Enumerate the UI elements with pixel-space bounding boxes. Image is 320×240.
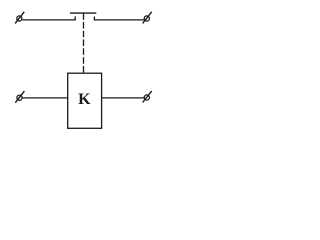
wire top-left to contact <box>22 19 75 21</box>
slash top-right <box>143 12 152 24</box>
slash bottom-right <box>143 91 152 103</box>
svg-text:K: K <box>78 91 91 108</box>
terminal circle top-left <box>17 16 22 21</box>
terminal circle bottom-right <box>144 95 149 100</box>
slash bottom-left <box>15 91 24 103</box>
wire bottom-left to coil <box>23 97 68 99</box>
slash top-left <box>15 12 24 24</box>
contact bridge bar <box>70 12 96 14</box>
fixed contact upturn left <box>74 16 76 20</box>
relay schematic: NO bridging contact linked to coil K <box>0 0 168 134</box>
wire coil to bottom-right <box>102 97 144 99</box>
coil box K <box>68 73 102 128</box>
wire contact to top-right <box>94 19 143 21</box>
contact stem + dashed link to coil K <box>83 13 85 74</box>
terminal circle top-right <box>144 16 149 21</box>
fixed contact upturn right <box>93 16 95 20</box>
terminal circle bottom-left <box>17 95 22 100</box>
